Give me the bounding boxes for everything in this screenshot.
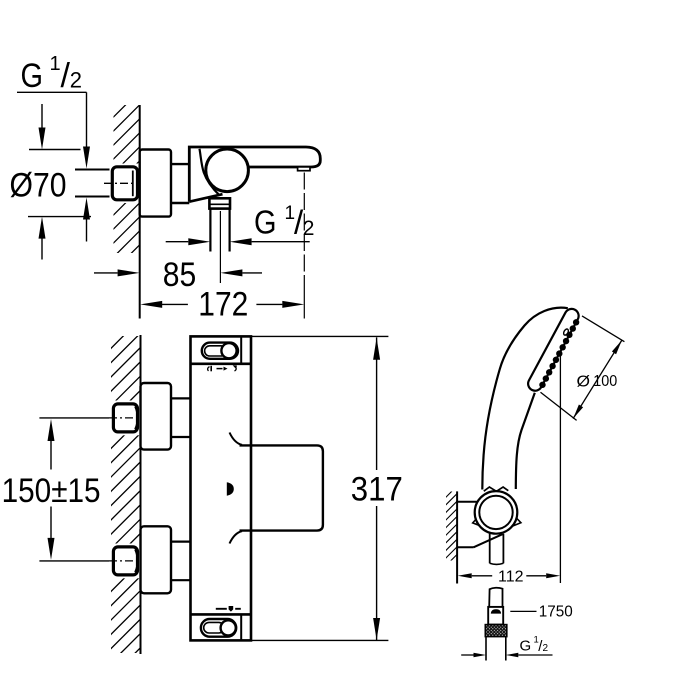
bottom icon row bbox=[216, 608, 227, 610]
thermostat body (front) bbox=[191, 336, 252, 640]
union nut lower bbox=[111, 544, 140, 579]
thermostat handle circle bbox=[206, 149, 249, 192]
svg-text:112: 112 bbox=[498, 569, 524, 586]
svg-text:317: 317 bbox=[351, 470, 403, 508]
wall union nut bbox=[110, 164, 140, 204]
shower handle stub below holder bbox=[489, 534, 491, 564]
svg-text:G: G bbox=[21, 57, 44, 95]
svg-text:Ø70: Ø70 bbox=[10, 167, 67, 205]
centerline lower connection bbox=[39, 560, 109, 562]
top icon row bbox=[208, 367, 210, 371]
body neck curve bbox=[200, 149, 220, 196]
temperature mark bbox=[227, 482, 234, 495]
svg-text:2: 2 bbox=[543, 643, 549, 654]
dim 85 bbox=[94, 272, 118, 274]
svg-text:2: 2 bbox=[70, 68, 82, 93]
shower hose (top view) bbox=[209, 209, 211, 252]
union nut upper bbox=[111, 401, 140, 436]
top economy button bbox=[202, 343, 238, 359]
mousseur nub bbox=[298, 167, 310, 171]
dim 317 bbox=[251, 335, 388, 337]
escutcheon upper (front) bbox=[141, 383, 172, 450]
svg-text:100: 100 bbox=[593, 373, 617, 390]
svg-text:2: 2 bbox=[303, 217, 315, 240]
spray nozzles bbox=[572, 318, 581, 327]
bottom economy button bbox=[201, 619, 236, 637]
escutcheon lower (front) bbox=[141, 526, 172, 593]
svg-text:Ø: Ø bbox=[577, 373, 591, 390]
S-union stem bbox=[171, 163, 189, 165]
dim diameter 70 bbox=[29, 149, 81, 151]
centerline upper connection bbox=[39, 417, 109, 419]
supply pipe G1/2 bbox=[75, 169, 113, 171]
hose connection nut bbox=[488, 607, 503, 625]
holder bracket arm bbox=[457, 501, 478, 503]
dim 150 +/- 15 bbox=[48, 419, 55, 441]
hand shower cone end notch bbox=[484, 487, 509, 491]
handle right outline bbox=[516, 393, 535, 489]
hose coupling nut bbox=[209, 198, 230, 208]
mixer body + spout bbox=[189, 147, 320, 202]
S-union stub lower bbox=[171, 540, 191, 542]
svg-text:G: G bbox=[520, 638, 532, 655]
shower hose bbox=[485, 637, 487, 661]
hose length label 1750 bbox=[510, 610, 536, 612]
holder ring bbox=[473, 517, 480, 526]
dim 172 bbox=[140, 301, 162, 308]
spray face plate bbox=[526, 306, 584, 394]
svg-text:150±15: 150±15 bbox=[2, 472, 101, 510]
shower head back/handle left outline bbox=[482, 308, 568, 490]
body right edge over handle bbox=[250, 445, 253, 530]
svg-text:172: 172 bbox=[198, 285, 248, 323]
handle bottom lip bbox=[230, 531, 243, 543]
dim 112 bbox=[559, 356, 561, 583]
pipe centerline bbox=[104, 182, 139, 184]
dim diameter 100 bbox=[582, 316, 624, 342]
spout outlet centerline bbox=[303, 173, 305, 291]
svg-text:85: 85 bbox=[163, 256, 197, 294]
escutcheon (side view) bbox=[140, 150, 171, 217]
knurled hose nut bbox=[485, 625, 507, 637]
svg-text:1: 1 bbox=[50, 53, 61, 75]
hose centerline extension bbox=[219, 211, 221, 283]
S-union stub upper bbox=[171, 397, 191, 399]
handle top lip bbox=[230, 433, 243, 445]
bracket diagonal bbox=[474, 534, 503, 547]
body neck lower edge bbox=[189, 194, 222, 202]
svg-text:G: G bbox=[254, 204, 277, 241]
logo oval bbox=[563, 328, 570, 336]
temperature handle (front) bbox=[240, 445, 323, 530]
svg-text:1750: 1750 bbox=[539, 604, 573, 621]
handle end above hose nut bbox=[489, 588, 502, 607]
